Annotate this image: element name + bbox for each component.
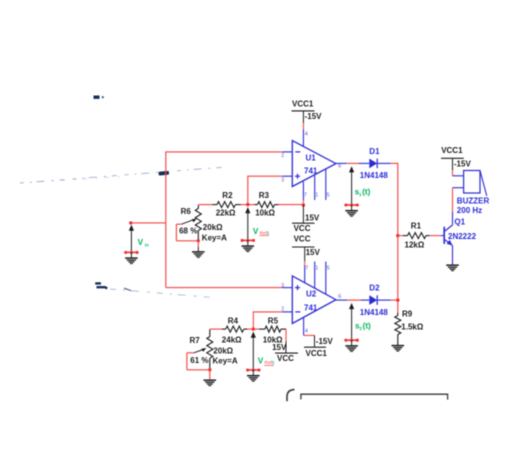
power VCC1 (U2 bottom) label <box>306 349 328 358</box>
wire R3 to U1 pin7 node <box>279 204 304 206</box>
op-amp U1 body <box>292 141 336 187</box>
svg-text:-15V: -15V <box>316 337 334 346</box>
wire right vertical bus <box>397 163 399 313</box>
power VCC1 (U2 bottom) bar <box>304 346 326 348</box>
resistor R9 <box>395 313 401 346</box>
wire R1 left <box>398 235 403 237</box>
svg-text:20kΩ: 20kΩ <box>213 346 233 355</box>
pin 6 label U2 <box>338 294 341 300</box>
label U2 <box>306 290 317 299</box>
transistor Q1 <box>444 225 452 246</box>
wire U1 non-inverting input <box>248 175 292 177</box>
label R2 <box>222 191 233 200</box>
power VCC (U1 bottom) lead <box>302 205 304 223</box>
svg-text:12kΩ: 12kΩ <box>405 240 425 249</box>
pin 2 label U2 <box>281 306 284 312</box>
pin 3 label U1 <box>281 178 284 184</box>
label R9 value <box>401 323 424 332</box>
svg-text:3: 3 <box>281 283 284 289</box>
svg-text:R7: R7 <box>190 336 201 345</box>
wire R7 top to R4 <box>210 328 222 330</box>
wire junction R2R3 up to U1+ <box>247 176 249 205</box>
label VRef2 <box>258 356 275 365</box>
label Q1 <box>454 217 465 226</box>
label R4 <box>228 317 239 326</box>
power VCC (U1 bottom) 15V <box>305 214 320 223</box>
svg-text:(t): (t) <box>363 321 371 330</box>
svg-text:R1: R1 <box>411 221 422 230</box>
label VRef1 <box>253 227 270 236</box>
power VCC (U2 top) label <box>294 235 311 244</box>
pin 5 label U1 <box>327 193 330 199</box>
artifact scratch lower <box>95 283 212 297</box>
op-amp U1 plus sign <box>295 174 300 179</box>
power VCC (U2 top) 15V <box>306 248 321 257</box>
op-amp U2 body <box>292 276 336 324</box>
probe s2 arrow <box>349 303 354 340</box>
svg-text:(t): (t) <box>362 188 370 197</box>
artifact ink dash top-left <box>94 96 104 99</box>
svg-text:10kΩ: 10kΩ <box>255 209 275 218</box>
label D1 <box>369 147 380 156</box>
label R7 value <box>213 346 233 355</box>
svg-text:R5: R5 <box>268 317 279 326</box>
label R5 value <box>263 336 283 345</box>
svg-text:U1: U1 <box>306 153 317 162</box>
wire U2 inverting input <box>253 311 292 313</box>
svg-text:V: V <box>258 356 264 365</box>
svg-text:2: 2 <box>272 360 275 365</box>
wire Q1 collector <box>452 212 454 225</box>
svg-text:68 %: 68 % <box>179 227 197 236</box>
ground VRef2 probe <box>246 368 261 381</box>
svg-text:4: 4 <box>305 329 308 335</box>
svg-text:VCC1: VCC1 <box>306 349 328 358</box>
wire R2 to node <box>241 204 255 206</box>
power VCC1 (buzzer) bar <box>441 157 464 159</box>
buzzer LS1 body <box>464 171 487 197</box>
svg-text:VCC: VCC <box>294 235 311 244</box>
pin 4 label U2 <box>305 329 308 335</box>
svg-text:1: 1 <box>315 193 318 199</box>
op-amp U2 top pins <box>315 262 326 295</box>
svg-text:6: 6 <box>338 294 341 300</box>
wire VCC1 to U1 pin4 <box>302 111 304 147</box>
pin 6 label U1 <box>338 163 341 169</box>
svg-text:20kΩ: 20kΩ <box>203 223 223 232</box>
svg-text:3: 3 <box>281 178 284 184</box>
op-amp U2 minus sign <box>295 311 300 313</box>
power VCC (R5) label <box>277 354 294 363</box>
resistor R3 <box>255 202 279 208</box>
svg-text:1: 1 <box>267 230 270 235</box>
wire D1 to right bus <box>391 162 398 164</box>
svg-text:D1: D1 <box>369 147 380 156</box>
svg-text:U2: U2 <box>306 290 317 299</box>
svg-text:7: 7 <box>305 266 308 272</box>
wire U1 pin7 to node <box>302 200 304 205</box>
svg-text:15V: 15V <box>306 248 321 257</box>
label R2 value <box>216 209 236 218</box>
power VCC (U1 bottom) bar <box>292 222 315 224</box>
svg-text:200 Hz: 200 Hz <box>457 206 482 215</box>
svg-text:22kΩ: 22kΩ <box>216 209 236 218</box>
svg-text:VCC1: VCC1 <box>441 146 463 155</box>
label R6 <box>181 207 192 216</box>
resistor R2 <box>213 202 241 208</box>
wire U2 output <box>347 299 361 301</box>
label Q1 value <box>448 232 477 241</box>
power VCC (U2 top) bar <box>292 246 315 248</box>
svg-text:6: 6 <box>338 163 341 169</box>
node Vin junction <box>129 221 132 224</box>
ground R7 <box>204 380 217 385</box>
wire U1 output stub <box>336 162 347 164</box>
svg-text:V: V <box>253 227 259 236</box>
label R1 <box>411 221 422 230</box>
svg-text:VCC1: VCC1 <box>292 99 314 108</box>
node R6 bottom junction <box>197 239 200 242</box>
pin 4 label U1 <box>305 132 308 138</box>
power VCC (R5) bar <box>275 352 298 354</box>
op-amp U1 bottom pins <box>303 170 325 201</box>
svg-text:V: V <box>138 238 144 247</box>
svg-text:VCC: VCC <box>294 224 311 233</box>
wire R1 to Q1 base <box>430 235 445 237</box>
probe VRef1 arrow <box>245 207 250 240</box>
pin 5 label U2 <box>327 266 330 272</box>
label R9 <box>402 310 413 319</box>
svg-text:in: in <box>145 242 149 247</box>
svg-text:D2: D2 <box>369 283 380 292</box>
wire VCC1 to buzzer <box>453 158 464 176</box>
label BUZZER <box>457 197 490 206</box>
label D2 <box>369 283 380 292</box>
potentiometer R6 <box>182 205 202 240</box>
probe s1 arrow <box>349 166 354 205</box>
pin 7 label U2 <box>305 266 308 272</box>
artifact diagonal scratch upper <box>20 167 226 183</box>
label s1 <box>355 188 371 198</box>
wire R6 top to R2 <box>198 204 212 206</box>
source probe Vin arrow <box>129 225 134 253</box>
pin 2 label U1 <box>281 153 284 159</box>
wire Q1 emitter <box>452 246 454 265</box>
label U1 <box>306 153 317 162</box>
wire R6 wiper loop <box>176 224 198 241</box>
label R1 value <box>405 240 425 249</box>
pin 1 label U1 <box>315 193 318 199</box>
label D1 value <box>360 171 389 180</box>
node VRef2 junction <box>252 327 255 330</box>
wire U2 non-inverting input (bottom horizontal) <box>166 287 292 289</box>
node D2 junction <box>396 298 399 301</box>
wire U1 output <box>347 162 359 164</box>
svg-text:2: 2 <box>281 153 284 159</box>
wire node to U2 minus <box>252 311 254 329</box>
ground R9 <box>392 346 405 351</box>
wire buzzer bottom to Q1 <box>453 188 464 212</box>
diode D1 <box>359 159 391 169</box>
svg-text:1.5kΩ: 1.5kΩ <box>401 323 424 332</box>
potentiometer R7 <box>194 329 213 369</box>
power VCC1 (U2 bottom) -15V <box>316 337 334 346</box>
svg-text:R9: R9 <box>402 310 413 319</box>
ground VRef1 probe <box>241 239 256 252</box>
label R4 value <box>222 336 242 345</box>
svg-text:VCC: VCC <box>277 354 294 363</box>
power VCC (U1 bottom) label <box>294 224 311 233</box>
power VCC1 (U1 top) -15V <box>305 112 323 121</box>
wire R6 bottom stub <box>197 241 199 247</box>
svg-text:-15V: -15V <box>454 159 472 168</box>
wire R7 wiper loop <box>187 353 210 370</box>
power VCC (R5) 15V <box>272 343 287 352</box>
wire D2 to right bus <box>391 299 398 301</box>
wire R4 to node <box>247 328 259 330</box>
node VRef1 junction <box>246 203 249 206</box>
label R6 percent <box>179 227 197 236</box>
op-amp U2 pin4 <box>303 318 305 336</box>
svg-text:24kΩ: 24kΩ <box>222 336 242 345</box>
ground s1 probe <box>344 203 359 216</box>
wire Vin to bus <box>131 222 166 224</box>
resistor R1 <box>403 233 430 239</box>
svg-text:61 %: 61 % <box>190 356 208 365</box>
node R7 bottom junction <box>208 368 211 371</box>
svg-text:R2: R2 <box>222 191 233 200</box>
label R7 key <box>213 356 238 365</box>
wire U2 output stub <box>336 299 347 301</box>
annotation curl <box>287 390 295 402</box>
svg-text:R6: R6 <box>181 207 192 216</box>
svg-text:Key=A: Key=A <box>202 233 227 242</box>
ground R6 <box>192 247 205 257</box>
label U1 741 <box>304 167 318 176</box>
svg-text:741: 741 <box>304 303 318 312</box>
label R7 percent <box>190 356 208 365</box>
op-amp U1 minus sign <box>295 151 300 153</box>
label R3 value <box>255 209 275 218</box>
ground Q1 <box>446 265 459 270</box>
label R6 value <box>203 223 223 232</box>
pin 3 label U2 <box>281 283 284 289</box>
label U2 741 <box>304 303 318 312</box>
svg-text:15V: 15V <box>305 214 320 223</box>
svg-text:1N4148: 1N4148 <box>360 308 389 317</box>
power VCC1 (buzzer) label <box>441 146 463 155</box>
label D2 value <box>360 308 389 317</box>
label R7 <box>190 336 201 345</box>
node R3 pin7 junction <box>302 203 305 206</box>
wire left vertical bus <box>165 151 167 287</box>
wire R7 bottom stub <box>209 370 211 380</box>
resistor R4 <box>222 326 247 332</box>
pin 7 label U1 <box>304 193 307 199</box>
svg-text:R4: R4 <box>228 317 239 326</box>
svg-text:R3: R3 <box>259 191 270 200</box>
annotation bracket <box>301 394 448 399</box>
wire VCC to U2 pin7 <box>304 247 306 283</box>
power VCC1 (U1 top) label <box>292 99 314 108</box>
svg-text:7: 7 <box>304 193 307 199</box>
svg-text:Q1: Q1 <box>454 217 465 226</box>
power VCC1 (buzzer) -15V <box>454 159 472 168</box>
label R3 <box>259 191 270 200</box>
svg-text:2N2222: 2N2222 <box>448 232 477 241</box>
label Vin <box>138 238 149 248</box>
diode D2 <box>361 295 391 305</box>
svg-text:5: 5 <box>327 193 330 199</box>
label s2 <box>355 321 371 331</box>
svg-text:1: 1 <box>315 266 318 272</box>
label buzzer frequency <box>457 206 482 215</box>
svg-text:-15V: -15V <box>305 112 323 121</box>
svg-text:5: 5 <box>327 266 330 272</box>
ground Vin probe <box>124 251 139 264</box>
op-amp U2 plus sign <box>295 285 300 290</box>
probe VRef2 arrow <box>251 332 256 371</box>
power VCC1 (U1 top) bar <box>292 110 315 112</box>
node R1 junction <box>396 234 399 237</box>
resistor R5 <box>259 326 286 332</box>
pin 1 label U2 <box>315 266 318 272</box>
ground s2 probe <box>344 339 359 352</box>
wire U1 inverting input (top horizontal) <box>166 151 292 153</box>
label R5 <box>268 317 279 326</box>
svg-text:15V: 15V <box>272 343 287 352</box>
svg-text:Key=A: Key=A <box>213 356 238 365</box>
svg-text:741: 741 <box>304 167 318 176</box>
wire U2 pin4 to VCC1 <box>304 335 315 347</box>
svg-text:BUZZER: BUZZER <box>457 197 490 206</box>
label R6 key <box>202 233 227 242</box>
svg-text:4: 4 <box>305 132 308 138</box>
svg-text:1N4148: 1N4148 <box>360 171 389 180</box>
wire R5 to VCC <box>285 329 287 353</box>
